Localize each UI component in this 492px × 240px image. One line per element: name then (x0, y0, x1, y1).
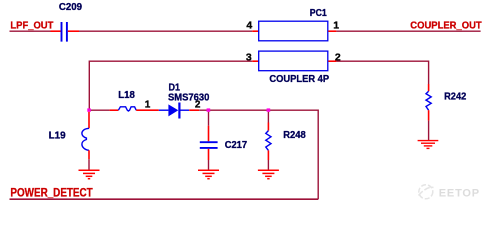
wire C217 to ground (208, 160, 210, 170)
pin stub PC1 pin 2 (328, 60, 336, 62)
pin stub C209 pin 1 (51, 30, 61, 32)
pin stub PC1 pin 3 (252, 60, 258, 62)
wire LPF_OUT to C209 (10, 30, 51, 32)
pin stub R242 pin 1 (428, 84, 430, 91)
wire D1 to C217 R248 and right corner (199, 110, 318, 200)
wire POWER_DETECT bottom (10, 198, 319, 200)
wire junction to C217 (208, 112, 210, 126)
ground L19 (79, 170, 100, 179)
svg-text:SMS7630: SMS7630 (168, 92, 209, 103)
pin stub R248 pin 1 (267, 123, 269, 131)
junction node at R248 (267, 108, 271, 111)
svg-text:R242: R242 (444, 91, 466, 102)
pin stub PC1 pin 4 (252, 30, 258, 32)
pin stub C217 pin 2 (208, 149, 210, 160)
svg-text:L19: L19 (49, 131, 67, 142)
svg-text:COUPLER_OUT: COUPLER_OUT (410, 21, 482, 32)
svg-text:1: 1 (333, 19, 339, 31)
wire R248 to ground (267, 160, 269, 170)
resistor R248 (266, 131, 271, 151)
ground R248 (258, 170, 279, 179)
pin stub R248 pin 2 (267, 150, 269, 160)
svg-text:EETOP: EETOP (439, 187, 480, 199)
wire PC1 pin 3 to corner (89, 61, 252, 111)
wire junction to R248 (267, 112, 269, 123)
coupler PC1 top body (259, 21, 328, 41)
svg-text:R248: R248 (283, 130, 306, 141)
wire C209 to PC1 pin 4 (79, 30, 252, 32)
pin stub L19 pin 1 (88, 112, 90, 129)
wire PC1 pin 2 to R242 (336, 61, 428, 85)
svg-text:PC1: PC1 (310, 8, 328, 19)
svg-text:C209: C209 (59, 2, 83, 13)
junction node at L18/L19 (87, 108, 91, 111)
svg-text:LPF_OUT: LPF_OUT (10, 21, 54, 32)
pin stub D1 cathode (189, 109, 199, 111)
pin stub C217 pin 1 (208, 126, 210, 142)
pin stub PC1 pin 1 (328, 30, 336, 32)
pin stub R242 pin 2 (428, 110, 430, 120)
capacitor C217 (200, 142, 218, 148)
wire PC1 pin 1 to COUPLER_OUT (336, 30, 480, 32)
wire R242 to ground (428, 121, 430, 140)
svg-text:C217: C217 (225, 140, 247, 151)
coupler PC1 bottom body (259, 51, 328, 71)
pin stub L18 pin 1 (110, 109, 119, 111)
ground R242 (418, 141, 439, 149)
svg-text:4: 4 (246, 19, 252, 31)
svg-text:2: 2 (195, 100, 201, 111)
pin stub L19 pin 2 (88, 150, 90, 159)
capacitor C209 (62, 22, 67, 42)
svg-text:L18: L18 (118, 90, 135, 101)
inductor L18 (118, 107, 136, 111)
ground C217 (198, 170, 219, 179)
wire L19 to ground (88, 159, 90, 170)
diode D1 (159, 103, 189, 119)
pin stub C209 pin 2 (68, 30, 79, 32)
inductor L19 (82, 128, 89, 150)
svg-text:COUPLER 4P: COUPLER 4P (269, 74, 329, 85)
watermark logo (419, 185, 434, 199)
svg-text:1: 1 (145, 100, 151, 111)
resistor R242 (426, 91, 431, 110)
svg-text:POWER_DETECT: POWER_DETECT (10, 186, 93, 200)
junction node at C217 (207, 108, 211, 111)
pin stub L18 pin 2 and D1 anode stub (136, 109, 159, 111)
wire junction to L18 (89, 109, 109, 111)
